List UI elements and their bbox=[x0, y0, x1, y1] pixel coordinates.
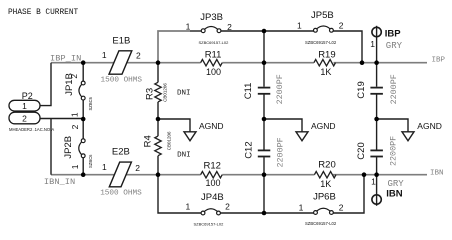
svg-text:2200PF: 2200PF bbox=[275, 74, 285, 104]
svg-text:1: 1 bbox=[70, 164, 80, 169]
svg-text:1: 1 bbox=[371, 177, 376, 187]
svg-text:SZBC69157-L02: SZBC69157-L02 bbox=[305, 40, 337, 45]
svg-text:JP2B: JP2B bbox=[63, 136, 74, 159]
svg-text:PHASE B CURRENT: PHASE B CURRENT bbox=[8, 9, 79, 17]
svg-text:IBN: IBN bbox=[430, 170, 444, 178]
svg-text:R19: R19 bbox=[318, 49, 335, 60]
svg-text:1: 1 bbox=[185, 202, 190, 212]
svg-text:DNI: DNI bbox=[177, 89, 191, 97]
svg-text:2200PF: 2200PF bbox=[276, 137, 286, 167]
svg-text:E2B: E2B bbox=[112, 146, 130, 157]
svg-text:MHEADER2 .1AC.NO.A: MHEADER2 .1AC.NO.A bbox=[9, 127, 54, 132]
svg-text:SZBC69157-L02: SZBC69157-L02 bbox=[199, 40, 230, 45]
svg-text:R20: R20 bbox=[318, 160, 335, 171]
svg-text:1: 1 bbox=[370, 39, 375, 49]
svg-text:C20: C20 bbox=[356, 142, 367, 159]
svg-text:JP5B: JP5B bbox=[311, 10, 334, 21]
svg-text:IBP: IBP bbox=[385, 29, 402, 40]
svg-text:2: 2 bbox=[69, 74, 79, 79]
svg-text:1: 1 bbox=[70, 112, 80, 117]
svg-text:E1B: E1B bbox=[112, 35, 130, 46]
svg-text:R4: R4 bbox=[142, 135, 153, 147]
svg-text:R3: R3 bbox=[145, 88, 156, 100]
svg-text:IBP_IN: IBP_IN bbox=[50, 53, 81, 63]
svg-text:1500 OHMS: 1500 OHMS bbox=[100, 189, 142, 197]
svg-text:JP4B: JP4B bbox=[201, 192, 224, 203]
svg-text:JP6B: JP6B bbox=[313, 192, 336, 203]
svg-text:C12: C12 bbox=[244, 141, 255, 158]
svg-text:SZBC6: SZBC6 bbox=[88, 96, 93, 110]
svg-text:GRY: GRY bbox=[388, 179, 405, 189]
svg-text:AGND: AGND bbox=[199, 121, 224, 131]
svg-text:IBN_IN: IBN_IN bbox=[44, 177, 75, 187]
svg-text:P2: P2 bbox=[22, 91, 33, 101]
svg-text:1K: 1K bbox=[320, 67, 331, 77]
svg-text:C11: C11 bbox=[243, 83, 254, 100]
svg-text:JP3B: JP3B bbox=[200, 12, 223, 23]
svg-text:2: 2 bbox=[135, 163, 140, 173]
svg-text:CB01206: CB01206 bbox=[163, 83, 168, 102]
svg-text:GRY: GRY bbox=[386, 41, 403, 51]
svg-text:R12: R12 bbox=[204, 161, 221, 172]
svg-text:1: 1 bbox=[102, 162, 107, 172]
svg-text:IBP: IBP bbox=[432, 56, 446, 64]
svg-text:R11: R11 bbox=[205, 49, 222, 60]
svg-text:100: 100 bbox=[206, 178, 221, 188]
svg-text:SZBC6: SZBC6 bbox=[88, 154, 93, 168]
svg-text:2200PF: 2200PF bbox=[389, 74, 399, 104]
svg-text:2: 2 bbox=[225, 202, 230, 212]
svg-text:AGND: AGND bbox=[311, 121, 336, 131]
svg-text:1: 1 bbox=[186, 22, 191, 32]
svg-text:SZBC69157-L02: SZBC69157-L02 bbox=[305, 221, 337, 226]
svg-text:100: 100 bbox=[206, 67, 221, 77]
svg-text:CB01206: CB01206 bbox=[166, 131, 171, 150]
svg-text:1500 OHMS: 1500 OHMS bbox=[101, 77, 143, 85]
svg-text:2: 2 bbox=[70, 124, 80, 129]
svg-text:2200PF: 2200PF bbox=[388, 136, 398, 166]
svg-text:2: 2 bbox=[339, 203, 344, 213]
svg-text:IBN: IBN bbox=[386, 188, 403, 199]
svg-text:2: 2 bbox=[22, 113, 27, 123]
svg-text:SZBC69157-L02: SZBC69157-L02 bbox=[194, 221, 225, 226]
svg-text:DNI: DNI bbox=[177, 152, 191, 160]
svg-text:1: 1 bbox=[297, 20, 302, 30]
svg-text:2: 2 bbox=[227, 22, 232, 32]
svg-text:2: 2 bbox=[339, 21, 344, 31]
svg-text:C19: C19 bbox=[356, 81, 367, 98]
svg-text:1K: 1K bbox=[320, 179, 331, 189]
svg-text:1: 1 bbox=[102, 50, 107, 60]
svg-text:1: 1 bbox=[22, 101, 27, 111]
svg-text:1: 1 bbox=[299, 203, 304, 213]
svg-text:2: 2 bbox=[136, 51, 141, 61]
svg-text:AGND: AGND bbox=[417, 121, 442, 131]
